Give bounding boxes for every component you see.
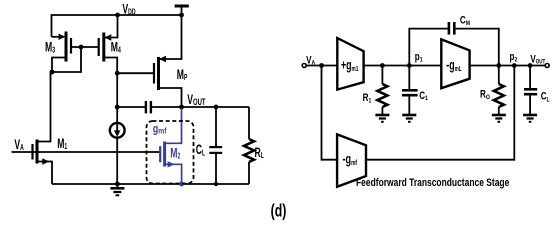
svg-text:Feedforward Transconductance S: Feedforward Transconductance Stage: [356, 177, 509, 189]
svg-text:gmf: gmf: [153, 123, 167, 135]
svg-text:(d): (d): [271, 202, 287, 222]
